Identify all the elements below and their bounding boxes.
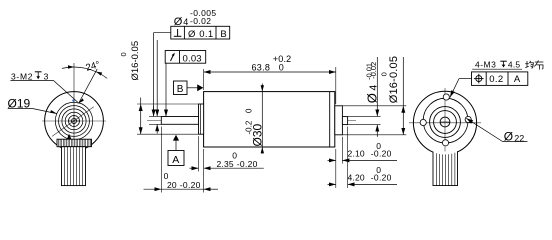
leader 3-M2 text line <box>10 81 77 102</box>
svg-text:-0.02: -0.02 <box>369 62 378 79</box>
FCF position frame <box>472 72 528 86</box>
datum B box <box>174 81 204 95</box>
svg-text:4.20: 4.20 <box>348 173 365 183</box>
dimension 2.35 <box>190 167 199 169</box>
circle D19 <box>55 102 92 139</box>
leader D19 <box>8 109 57 114</box>
svg-text:4.5: 4.5 <box>508 59 520 69</box>
dimension 63.8 <box>204 71 336 73</box>
inner circle r11.4 <box>434 111 457 134</box>
center cross <box>68 120 80 122</box>
inner circle r12.1 <box>62 109 86 133</box>
shaft circle center <box>71 118 76 123</box>
connector flange left view <box>57 139 92 147</box>
dimension D16 front <box>140 104 142 134</box>
svg-text:2.35: 2.35 <box>217 159 234 169</box>
motor body rectangle <box>204 92 335 147</box>
index mark triangle on flange <box>67 134 72 140</box>
svg-text:A: A <box>514 74 521 85</box>
svg-text:B: B <box>177 84 184 95</box>
underline of 4-M3 label <box>472 68 522 70</box>
M3 hole top <box>443 94 449 100</box>
M3 hole bottom <box>442 140 448 146</box>
rear extension lines D16 <box>342 105 406 107</box>
depth symbol of 3-M2 <box>35 71 42 73</box>
svg-text:B: B <box>220 29 226 40</box>
bottom extension lines <box>160 127 162 193</box>
svg-text:-0.2: -0.2 <box>245 120 254 134</box>
front shaft D4 <box>161 117 198 125</box>
svg-text:Ø16-0.05: Ø16-0.05 <box>130 41 141 81</box>
inner circle r15.4 <box>59 106 90 137</box>
svg-text:0: 0 <box>119 52 128 56</box>
datum A box <box>168 135 184 166</box>
rotated text D16-0.05 left <box>119 41 141 81</box>
centerline vertical right view <box>444 88 446 152</box>
leader D22 <box>503 141 528 143</box>
rear bottom extension lines <box>335 149 337 188</box>
centerline horizontal right view <box>409 122 481 124</box>
svg-text:Ø16-0.05: Ø16-0.05 <box>388 56 400 103</box>
svg-text:3-M2: 3-M2 <box>11 71 33 81</box>
dimension D4 front lower arrow <box>156 124 158 133</box>
dimension 2.10 <box>328 159 336 161</box>
svg-text:4: 4 <box>183 17 188 27</box>
centerline horizontal left view <box>42 120 106 122</box>
svg-text:2.10: 2.10 <box>348 149 365 159</box>
svg-text:A: A <box>172 154 179 166</box>
svg-text:Ø: Ø <box>364 93 379 103</box>
outer circle right view <box>413 91 476 154</box>
extension lines front boss top/bottom <box>137 103 199 105</box>
M3 hole left <box>420 119 426 125</box>
inner circle r5.5 <box>69 116 80 127</box>
M3 hole right <box>465 116 471 122</box>
svg-text:4: 4 <box>367 85 379 91</box>
inner circle r15.4 <box>430 107 461 138</box>
svg-text:+0.2: +0.2 <box>273 54 292 64</box>
extension line 63.8 right <box>335 67 337 104</box>
svg-text:0.1: 0.1 <box>199 29 213 40</box>
front boss inner line <box>199 104 201 134</box>
dimension 20 <box>144 188 162 190</box>
dimension D30 vertical <box>261 84 263 154</box>
outer housing circle left view <box>45 92 104 151</box>
svg-text:0.03: 0.03 <box>183 53 202 64</box>
svg-text:0: 0 <box>379 72 388 76</box>
rear extension lines D4 <box>348 115 381 117</box>
center cross right view <box>440 121 450 123</box>
center shaft circle <box>440 117 450 127</box>
dimension 4.20 <box>328 183 336 185</box>
FCF circular runout frame <box>165 51 206 65</box>
svg-text:63.8: 63.8 <box>252 63 271 73</box>
diagonal reference line through center <box>52 107 94 137</box>
depth symbol of 4-M3 <box>500 60 507 62</box>
rotated label D16 rear <box>379 56 399 103</box>
svg-text:Ø: Ø <box>188 29 196 40</box>
leader from FCF perpendicularity <box>154 33 171 112</box>
bolt circle D22 <box>423 98 468 143</box>
centerline axis <box>147 119 356 121</box>
dimension D4 rear <box>376 57 378 116</box>
svg-text:-0.20: -0.20 <box>237 159 258 169</box>
arc arrow at vertical line <box>68 65 74 68</box>
svg-text:0.2: 0.2 <box>489 74 503 85</box>
ribbon cable right view <box>433 151 458 185</box>
rear boss D16 <box>335 106 343 135</box>
front boss D16 <box>199 104 204 134</box>
rear shaft D4 <box>342 117 347 125</box>
svg-text:0: 0 <box>245 108 254 113</box>
extension lines front shaft <box>149 116 161 118</box>
svg-text:20: 20 <box>167 180 177 190</box>
leader FCF to top hole <box>459 78 472 80</box>
24 deg dimension arc <box>62 67 107 78</box>
FCF perpendicularity frame <box>171 26 230 40</box>
svg-text:-0.20: -0.20 <box>371 149 392 159</box>
chinese text junbu (evenly distributed) <box>525 60 543 69</box>
leader from FCF runout <box>165 63 167 116</box>
leader arrow on radial pointing to hole <box>77 98 84 104</box>
svg-text:-0.20: -0.20 <box>371 173 392 183</box>
svg-text:3: 3 <box>44 71 49 81</box>
ribbon cable left view <box>62 147 86 186</box>
end cap seam line right <box>329 92 331 147</box>
svg-text:0: 0 <box>279 63 284 73</box>
svg-text:4-M3: 4-M3 <box>475 59 496 69</box>
svg-text:-0.02: -0.02 <box>190 16 211 26</box>
svg-text:-0.20: -0.20 <box>180 180 201 190</box>
rotated label D30 <box>245 108 265 147</box>
inner circle r8.8 <box>65 112 83 130</box>
arc arrow at radial line <box>96 72 102 76</box>
centerline vertical left view <box>73 63 75 150</box>
M2 hole (blue dot) <box>72 99 74 101</box>
extension line 63.8 left <box>203 69 205 90</box>
radial line at 24 deg from vertical <box>79 69 97 103</box>
dimension D4 front upper leader <box>156 40 158 117</box>
rotated label D4 rear <box>364 85 379 104</box>
dimension D16 rear <box>402 106 404 135</box>
